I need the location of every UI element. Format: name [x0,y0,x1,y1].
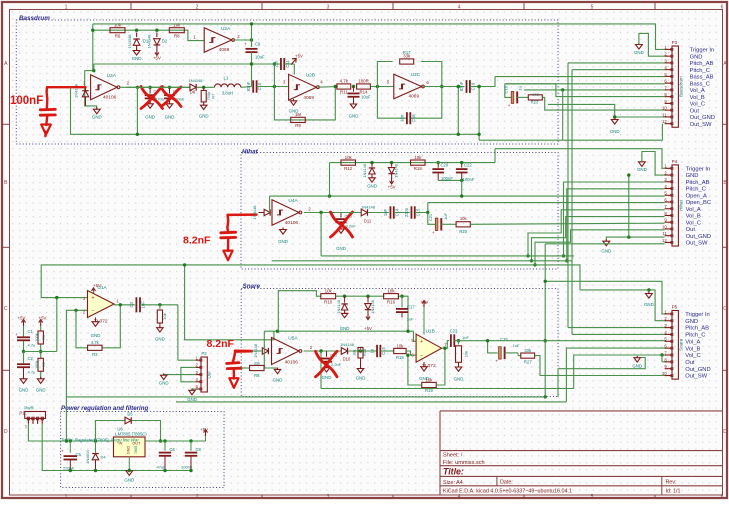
hihat top loop left [269,196,271,212]
op-amp U1A [88,291,115,318]
svg-text:R13: R13 [362,349,367,356]
svg-text:U2A: U2A [221,26,231,32]
svg-text:GND: GND [124,478,134,483]
wire P5 pin7 Vol_C [574,355,666,389]
svg-text:4.7u: 4.7u [28,343,36,348]
red X over C7 [161,87,181,107]
junction D2 top [155,29,158,32]
resistor R3 [88,345,103,350]
svg-text:100k: 100k [34,333,39,341]
ground below R7 [200,105,206,109]
svg-text:12: 12 [662,238,667,243]
junction bus x137 [136,133,139,136]
junction R4 top [158,303,161,306]
wire C22 to open_a line [461,180,463,196]
wire to R18s [380,350,393,352]
resistor R13 [360,348,362,352]
capacitor C25 electrolytic [499,347,502,359]
title block [439,411,441,495]
svg-text:U3A: U3A [107,73,117,79]
power +5V below D14 [391,178,393,183]
svg-text:Out: Out [690,108,700,114]
svg-text:Vol_C: Vol_C [686,220,701,226]
svg-text:+: + [420,339,423,345]
wire P2 pins 2-4 loop [181,367,196,381]
junction U1A pin2 [74,309,77,312]
svg-text:PwR: PwR [24,406,33,411]
svg-text:Out: Out [686,227,696,233]
wire R14 to U2C [370,86,393,88]
svg-text:40106: 40106 [285,220,299,226]
svg-text:1N4148: 1N4148 [147,34,152,49]
svg-text:Id: 1/1: Id: 1/1 [666,489,681,495]
wire P1 to gnd rail [42,424,191,471]
capacitor C23 [450,334,452,347]
svg-text:1: 1 [65,4,68,10]
svg-text:7805: 7805 [134,446,138,454]
junction D12 [366,295,369,298]
diode D at U4A input [259,212,265,214]
wire below-snare rail1 [321,388,574,390]
junction P4 gnd top [627,173,630,176]
wire C9 bottom to row [251,52,253,86]
wire P5 pin5 Vol_A [454,340,666,342]
svg-text:Out_SW: Out_SW [690,122,712,128]
section box Snare [241,289,558,397]
capacitor C8 [190,441,192,451]
svg-text:GND: GND [644,302,654,307]
wire P4 pin11 out_gnd jog [606,237,664,241]
svg-text:Vol_B: Vol_B [690,95,705,101]
junction hihat out [319,211,322,214]
svg-text:R20: R20 [459,229,467,234]
svg-text:C21: C21 [428,213,433,221]
svg-text:8.2nF: 8.2nF [183,235,211,247]
section box Bassdrum [16,20,558,144]
wire out to rail 388 [320,351,322,389]
svg-text:U1A: U1A [97,285,107,291]
svg-text:GND: GND [632,364,642,369]
resistor R16 [384,294,399,299]
junction R13 [359,349,362,352]
svg-text:1N4148: 1N4148 [336,300,341,314]
svg-text:Pitch_C: Pitch_C [685,333,705,339]
svg-text:4.7u: 4.7u [28,370,36,375]
wire U5A out [304,350,342,352]
svg-text:Size: A4: Size: A4 [443,480,463,486]
ground below C12 [350,104,356,108]
ground P2 pin3 [164,374,166,376]
svg-text:U4A: U4A [288,198,298,204]
wire C10 to U2B [257,86,289,88]
wire P3 pin3 [568,62,665,64]
svg-text:22n: 22n [274,60,279,68]
U3A feedback loop [85,71,97,110]
svg-text:GND: GND [356,376,366,381]
power +5V U2B [291,59,295,64]
wire drop x562 [562,90,564,140]
svg-text:3: 3 [327,494,330,500]
inverter U5A [272,338,300,365]
svg-text:1N4148: 1N4148 [370,300,375,314]
svg-text:R23: R23 [531,100,539,105]
svg-text:GND: GND [349,114,359,119]
ground below R21 [455,367,461,371]
ground below R2 [37,379,44,384]
junction p5 trig [544,280,547,283]
wire Vol_A to P3 pin7 [524,89,665,91]
ground below D13 [369,178,375,182]
svg-text:GND: GND [159,381,169,386]
wire pin7 to pin8 [661,355,663,362]
svg-text:2: 2 [196,4,199,10]
svg-text:1N4148: 1N4148 [362,164,367,178]
svg-text:Date:: Date: [500,480,513,486]
resistor R21 [458,341,460,345]
svg-text:U2B: U2B [306,72,315,78]
svg-text:Open_BC: Open_BC [686,200,711,206]
regulator U6 LM7805 [114,437,146,457]
capacitor C12 [353,87,355,92]
junction D1 top [135,29,138,32]
svg-text:11: 11 [662,112,667,117]
junction p5 pin7 [660,353,663,356]
svg-text:GND: GND [610,129,620,134]
power +5V divider left [23,321,25,326]
svg-text:R17: R17 [403,50,411,55]
svg-text:1N4148: 1N4148 [74,83,79,98]
capacitor C22 [461,163,463,168]
ground below D1 [133,51,140,56]
ground below U1B [423,362,425,367]
U1A R3 feedback loop [76,310,87,348]
wire P5 pin4 Pitch_C [572,333,666,335]
red annotation snare gnd arrow [229,378,238,388]
ground P5 top [648,290,650,294]
U1B R19 loop [408,355,421,385]
wire R23 to P3 pin10 [542,97,664,110]
resistor R4 [159,305,161,309]
wire vgnd feed from rail [41,265,87,298]
svg-text:LM7805 (7805C): LM7805 (7805C) [115,432,147,437]
junction railC tap [183,263,186,266]
svg-text:1uF: 1uF [383,208,388,216]
junction C20 top [437,161,440,164]
capacitor C7 (crossed out) [169,87,171,93]
resistor R12 [341,160,356,165]
diode D1 [136,33,138,38]
svg-text:+5V: +5V [295,54,303,59]
svg-text:C9: C9 [255,42,261,47]
ground P3 top [635,45,642,50]
wire R27 to P5 pin10 [535,356,666,376]
ground below C15s [323,368,329,372]
wire bassdrum bottom bus [71,87,480,134]
wire drop x458 [457,87,459,135]
resistor R18s [394,348,406,353]
wire P1 to input rail [28,424,113,441]
capacitor C15 [410,206,412,218]
capacitor C19s [376,345,378,357]
U2B C11 feedback loop [274,64,281,87]
svg-text:1N4004: 1N4004 [85,449,90,463]
svg-text:Sheet: /: Sheet: / [443,453,463,459]
wire P4 pin1 trigger [495,149,665,169]
svg-text:4: 4 [458,494,461,500]
capacitor C16 electrolytic [511,91,514,103]
junction C8 top [189,439,192,442]
svg-text:1N4148: 1N4148 [127,34,132,49]
diode D6 [126,86,190,88]
svg-text:10k: 10k [173,23,181,28]
junction P3 gnd [613,115,616,118]
svg-text:33k: 33k [524,348,532,353]
power +5V U1A [93,289,95,294]
svg-text:P3: P3 [672,40,678,45]
wire bus to pin12 [479,124,662,141]
wire P2 pin3 gnd [166,374,196,376]
svg-text:P5: P5 [672,305,678,310]
junction U2A out [250,38,253,41]
svg-text:GND: GND [367,183,377,188]
junction D13 [370,161,373,164]
svg-text:5: 5 [591,4,594,10]
svg-text:C3: C3 [129,301,134,307]
svg-text:1N4148: 1N4148 [252,205,257,220]
svg-text:R18: R18 [414,166,423,171]
junction U2C loop in [376,85,379,88]
wire P5 pin3 Pitch_AB [568,327,666,329]
wire U2C out [423,86,464,88]
junction C17 [400,295,403,298]
junction D5 right [159,439,162,442]
svg-text:10: 10 [662,371,667,376]
wire C14 to C15 [394,212,410,214]
frame zone ticks [130,2,132,10]
svg-text:Open_A: Open_A [686,193,707,199]
resistor R17 [400,59,414,64]
wire divider column R [40,326,42,331]
svg-text:+: + [92,296,95,302]
wire vgnd out drop [177,305,179,360]
svg-text:Out_GND: Out_GND [686,234,711,240]
svg-text:R2: R2 [41,362,46,367]
U2C C18 bottom loop [377,87,407,119]
connector P4 [672,165,678,246]
inverter U2C [394,74,422,99]
svg-text:GND: GND [145,115,155,120]
svg-text:GND: GND [322,375,332,380]
junction U2B out [334,85,337,88]
capacitor C1 electrolytic [17,336,30,338]
svg-text:+5V: +5V [421,300,429,305]
resistor R18 [411,160,426,165]
wire P2 pin5 [192,388,196,390]
svg-text:C2: C2 [28,356,34,361]
ground below C4 [147,104,153,108]
svg-text:Pitch_AB: Pitch_AB [686,180,710,186]
capacitor C13 (crossed out) [340,213,342,218]
svg-text:10uF: 10uF [255,55,265,60]
svg-text:1uF: 1uF [443,213,448,220]
svg-text:To 5V: Regulated (7805), Regu: To 5V: Regulated (7805), Regu line War [61,437,139,442]
svg-text:R18: R18 [396,355,404,360]
ground below C13 [338,229,344,233]
junction C22 top [460,161,463,164]
resistor R1 [38,331,43,344]
svg-text:Pitch_C: Pitch_C [690,68,710,74]
svg-text:10k: 10k [345,155,353,160]
section box Hihat [241,153,558,270]
svg-text:10k: 10k [414,155,422,160]
resistor R20 [456,222,470,227]
wire top +5V rail [93,24,665,50]
red X over C13 [331,212,353,237]
power +5V U1B [423,302,425,307]
wire P4 pin8 Vol_B [532,217,665,261]
svg-text:Vol_B: Vol_B [686,214,701,220]
junction D4 bottom [94,469,97,472]
svg-text:File: ummiss.sch: File: ummiss.sch [443,460,485,466]
svg-text:+5V: +5V [153,55,161,60]
wire bias riser [93,64,95,71]
capacitor C3 [135,297,137,312]
wire row right riser to P4 pin1 line [494,149,496,163]
inductor L1 [215,84,241,87]
svg-text:U2C: U2C [411,72,421,78]
svg-text:Out_GND: Out_GND [690,115,715,121]
diode D7 [344,296,346,302]
ground regulator [126,471,133,476]
svg-text:100nF: 100nF [10,95,43,107]
svg-text:100R: 100R [358,79,369,84]
connector P2 block [201,357,207,392]
svg-text:1u: 1u [370,348,375,353]
capacitor C21 electrolytic [435,218,438,230]
svg-text:GND: GND [132,56,142,61]
svg-text:R7: R7 [211,94,216,99]
hihat R12 row riser [329,163,331,197]
wire L1 to C10 [241,86,252,89]
wire Open_A to P4 pin5 [270,195,665,197]
red X over snare cap [316,351,338,377]
svg-text:C18: C18 [411,114,416,122]
svg-text:+: + [508,103,511,108]
svg-text:10k: 10k [464,351,469,357]
wire vgnd riser [56,298,58,352]
junction p5 gnd [647,288,650,291]
ground P4 top [638,162,645,167]
svg-text:R8: R8 [174,33,180,38]
svg-text:GND: GND [637,167,647,172]
svg-text:Bass_C: Bass_C [690,81,710,87]
wire P3 pin2 gnd [639,33,665,56]
capacitor C10 [252,80,254,92]
junction out jog [477,85,480,88]
red annotation 100nF gnd arrow [41,125,51,135]
svg-text:10: 10 [662,224,667,229]
ground below U3A [93,109,100,114]
wire P4 pin12 Out_SW [545,243,664,245]
resistor R8 [169,28,184,33]
junction R21 [457,339,460,342]
wire hihat railB [272,260,572,262]
svg-text:4069: 4069 [219,47,230,53]
svg-text:C: C [723,306,727,312]
svg-text:Trigger In: Trigger In [685,312,710,318]
diode D11 [335,212,362,214]
svg-text:10k: 10k [426,377,434,382]
junction bus x458 [457,133,460,136]
svg-text:10k: 10k [162,313,167,319]
svg-text:11: 11 [662,231,667,236]
svg-text:4069: 4069 [303,95,314,101]
svg-text:GND: GND [92,115,102,120]
wire U1B out [442,341,450,349]
svg-text:1N4148: 1N4148 [253,343,258,358]
power +5V below D2 [156,49,158,54]
power +5V below D12 [367,313,369,318]
junction R7 [202,86,205,89]
junction open_a C22 [460,194,463,197]
svg-text:GND: GND [36,388,46,393]
svg-text:GND: GND [289,109,299,114]
wire U1A pin2 net [66,310,87,441]
wire rail stub to C9 [251,24,253,47]
svg-text:8.2nF: 8.2nF [207,338,235,350]
wire C20 C22 bottom bus [438,179,462,181]
resistor R9 [291,117,306,122]
svg-text:KiCad E.D.A. kicad 4.0.5+e0-6: KiCad E.D.A. kicad 4.0.5+e0-6337~49~ubun… [443,489,572,495]
section box Power [61,412,224,488]
ground below U4A [280,230,287,235]
capacitor C2 electrolytic [23,352,25,364]
svg-text:Trigger In: Trigger In [690,48,715,54]
inverter U4A [272,200,299,225]
svg-text:GND: GND [336,246,346,251]
junction U2C out [440,85,443,88]
U2B R9 bottom loop [274,87,335,120]
junction U1A pin3 [55,296,58,299]
svg-text:10: 10 [662,106,667,111]
svg-text:1N4148: 1N4148 [340,342,355,347]
junction C5 top [69,439,72,442]
svg-text:C5: C5 [76,452,82,457]
red X over C4 [141,87,163,109]
ground P4 out_gnd [603,241,610,246]
diode D2 [156,33,158,38]
svg-text:GND: GND [685,319,698,325]
wire P5 pin6 Vol_B [566,348,666,402]
svg-text:10uF: 10uF [361,95,371,100]
svg-text:2.2nF: 2.2nF [331,362,342,367]
svg-text:Hihat: Hihat [679,199,684,210]
junction reg gnd [128,469,131,472]
resistor R7 [203,87,205,90]
red annotation 100nF capacitor [47,87,86,109]
svg-text:Title:: Title: [443,467,464,477]
wire C16 to R23 [517,96,528,98]
wire C11 to +5V node [284,63,294,65]
capacitor C20 [437,163,439,168]
svg-text:100nF: 100nF [463,177,475,182]
snare top loop [278,291,321,332]
junction out net [136,86,139,89]
resistor R27 [521,353,535,358]
capacitor C11 [280,58,282,70]
wire U2A output [233,39,251,41]
svg-text:1: 1 [65,494,68,500]
